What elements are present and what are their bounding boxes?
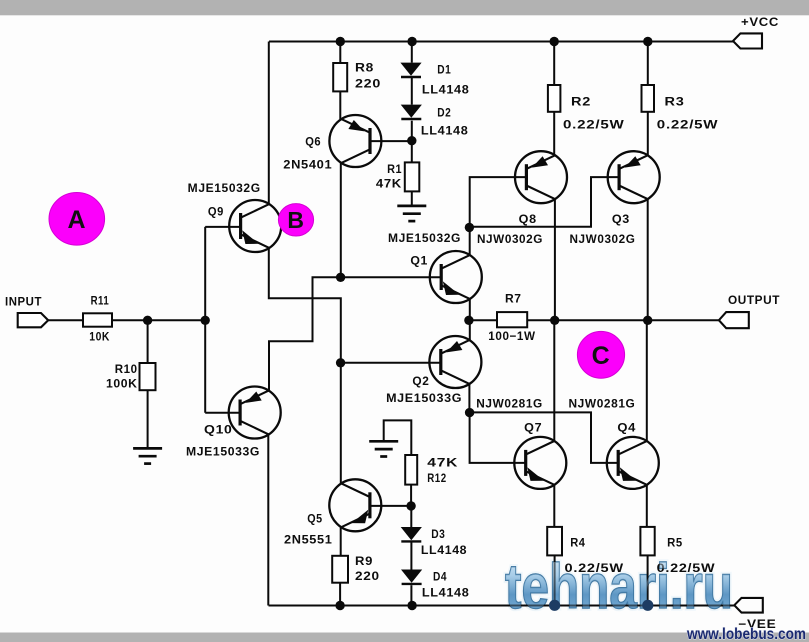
svg-text:47K: 47K [376,176,402,190]
svg-text:Q1: Q1 [410,253,428,267]
svg-text:Q3: Q3 [612,212,630,226]
svg-text:47K: 47K [427,456,458,470]
svg-text:NJW0302G: NJW0302G [570,232,636,246]
svg-text:100−1W: 100−1W [488,329,535,343]
svg-text:NJW0281G: NJW0281G [476,396,543,410]
svg-text:Q4: Q4 [617,420,636,434]
svg-text:Q5: Q5 [307,511,322,525]
svg-text:2N5551: 2N5551 [284,533,333,547]
svg-text:10K: 10K [89,329,110,343]
svg-text:Q6: Q6 [305,134,321,148]
svg-text:+VCC: +VCC [741,15,779,29]
svg-text:LL4148: LL4148 [422,586,470,600]
svg-text:2N5401: 2N5401 [283,157,332,171]
svg-text:D2: D2 [437,106,451,120]
svg-text:0.22/5W: 0.22/5W [563,117,625,131]
svg-text:NJW0281G: NJW0281G [569,396,636,410]
svg-text:D3: D3 [431,527,445,541]
svg-text:220: 220 [355,569,380,583]
svg-text:MJE15032G: MJE15032G [188,181,261,195]
svg-text:Q7: Q7 [524,420,542,434]
svg-text:R10: R10 [115,362,138,376]
svg-text:A: A [67,206,86,234]
svg-text:R9: R9 [355,554,373,568]
svg-text:0.22/5W: 0.22/5W [657,117,719,131]
svg-text:Q9: Q9 [208,204,224,218]
svg-text:Q10: Q10 [204,423,233,437]
svg-text:OUTPUT: OUTPUT [728,293,780,307]
svg-text:R5: R5 [667,536,683,550]
svg-text:tehnari.ru: tehnari.ru [505,551,733,622]
svg-text:Q2: Q2 [412,374,429,388]
svg-text:R11: R11 [91,293,110,307]
svg-text:R1: R1 [387,162,402,176]
svg-text:MJE15032G: MJE15032G [388,231,461,245]
svg-text:MJE15033G: MJE15033G [386,391,462,405]
svg-text:B: B [287,207,304,233]
svg-text:R12: R12 [427,471,446,485]
svg-text:100K: 100K [106,376,138,390]
svg-text:LL4148: LL4148 [421,124,469,138]
svg-text:D4: D4 [433,570,447,584]
svg-text:INPUT: INPUT [5,294,42,308]
svg-text:C: C [592,342,611,370]
svg-text:R3: R3 [665,95,685,109]
svg-text:R2: R2 [571,95,591,109]
svg-text:R7: R7 [505,291,522,305]
svg-text:D1: D1 [437,63,451,77]
svg-text:R4: R4 [570,536,585,550]
svg-text:R8: R8 [355,61,374,75]
svg-text:LL4148: LL4148 [422,83,470,97]
svg-text:MJE15033G: MJE15033G [186,445,260,459]
svg-text:LL4148: LL4148 [421,543,467,557]
svg-text:www.lobebus.com: www.lobebus.com [686,626,806,642]
svg-text:Q8: Q8 [519,212,537,226]
svg-text:220: 220 [355,77,381,91]
svg-text:NJW0302G: NJW0302G [477,232,543,246]
